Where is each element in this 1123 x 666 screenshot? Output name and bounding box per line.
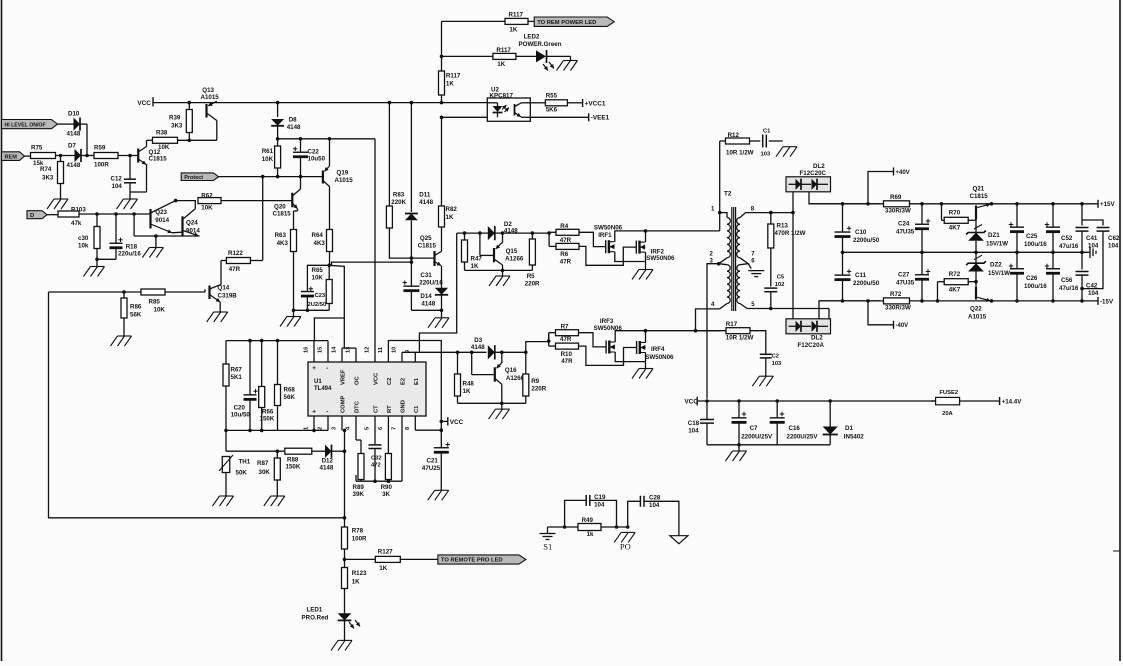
- svg-text:1: 1: [304, 427, 310, 430]
- svg-text:C22: C22: [308, 149, 320, 156]
- node C20 top bus: [248, 339, 252, 343]
- svg-text:2200u/50: 2200u/50: [853, 237, 880, 244]
- wire R17 to C2: [750, 331, 766, 354]
- zener DZ2 15V/1W: [966, 252, 1010, 289]
- svg-text:TH1: TH1: [239, 459, 251, 466]
- ground for LED2: [557, 61, 578, 71]
- resistor R59 100R: [94, 145, 118, 169]
- wire -40V stub: [866, 299, 893, 325]
- svg-text:C31: C31: [420, 272, 432, 279]
- svg-text:Q14: Q14: [218, 285, 230, 292]
- node C41 top: [1080, 202, 1084, 206]
- wire R10 to IRF4 gate: [579, 346, 637, 365]
- svg-text:10: 10: [392, 347, 398, 353]
- capacitor C42 104: [1076, 251, 1099, 301]
- svg-text:R64: R64: [312, 232, 324, 239]
- node Q15 base drop: [478, 231, 482, 235]
- svg-text:A1015: A1015: [968, 314, 987, 321]
- svg-text:-40V: -40V: [896, 323, 909, 329]
- svg-text:D12: D12: [322, 458, 334, 465]
- svg-text:R87: R87: [257, 460, 269, 467]
- wire R122 left to Q14: [221, 261, 226, 285]
- resistor R7 47R: [549, 323, 579, 343]
- wire TL494 bottom bus: [226, 429, 328, 433]
- svg-text:220R: 220R: [531, 385, 546, 392]
- svg-text:R48: R48: [463, 381, 475, 388]
- svg-text:C41: C41: [1086, 235, 1098, 242]
- wire pin1 pin2 stubs down: [314, 416, 328, 430]
- node R5 top: [531, 231, 535, 235]
- node R67 bottom: [224, 429, 228, 433]
- ground Q15: [489, 276, 510, 286]
- svg-text:+14.4V: +14.4V: [1002, 398, 1023, 405]
- svg-text:47u/16: 47u/16: [1059, 243, 1079, 250]
- svg-text:220u/16: 220u/16: [118, 251, 141, 258]
- svg-text:47U25: 47U25: [422, 465, 441, 472]
- wire pin5 stub: [740, 304, 829, 319]
- wire bottom bridge output to rail: [819, 301, 880, 319]
- svg-text:F12C20A: F12C20A: [798, 342, 825, 349]
- wire D3 cathode: [495, 351, 526, 353]
- wire long loop left: [49, 292, 345, 518]
- svg-text:D11: D11: [419, 192, 431, 199]
- wire R122 right up to Protect: [250, 177, 262, 261]
- banner D: [27, 211, 47, 219]
- svg-text:47U35: 47U35: [896, 229, 915, 236]
- ground center tap secondary: [748, 271, 764, 277]
- svg-text:C2: C2: [772, 354, 779, 360]
- node C56 bottom: [1051, 299, 1055, 303]
- svg-text:PRO.Red: PRO.Red: [302, 615, 329, 622]
- ground S1: [540, 527, 556, 552]
- svg-text:+: +: [312, 409, 316, 416]
- wire pin7 pin6 hook: [740, 258, 751, 269]
- svg-text:FUSE2: FUSE2: [939, 390, 958, 396]
- wire D10 down to REM net: [86, 124, 88, 155]
- svg-text:10K: 10K: [154, 307, 166, 314]
- svg-text:104: 104: [594, 502, 605, 509]
- svg-text:C20: C20: [234, 405, 246, 412]
- node R127 junction: [343, 558, 347, 562]
- capacitor C18 104: [688, 401, 714, 445]
- wire R85 line: [49, 289, 206, 294]
- svg-text:R38: R38: [156, 129, 168, 136]
- resistor R62 10K: [198, 192, 221, 211]
- node VEE row at column: [440, 116, 444, 120]
- svg-text:R88: R88: [287, 457, 299, 464]
- terminal VCC near C21: [441, 417, 463, 426]
- banner HI LEVEL ON/OF: [2, 120, 58, 129]
- svg-text:1K: 1K: [446, 214, 454, 221]
- wire IRF4 source to ground: [645, 353, 647, 369]
- wire IRF1 drain: [615, 231, 720, 242]
- capacitor C28 104: [628, 495, 679, 536]
- node D2 cathode: [501, 231, 505, 235]
- svg-text:C21: C21: [427, 458, 439, 465]
- thermistor TH1 50K: [219, 455, 251, 496]
- node rail R70: [940, 202, 944, 206]
- banner Protect: [181, 173, 218, 181]
- wire top rail +40: [809, 203, 1098, 205]
- terminal -15V: [1098, 297, 1114, 305]
- transistor Q24 9014: [183, 201, 201, 237]
- capacitor C19 104: [565, 494, 617, 527]
- resistor R69 330R/3W: [884, 194, 911, 215]
- svg-text:1K: 1K: [471, 263, 479, 270]
- svg-text:D1: D1: [845, 425, 853, 432]
- svg-text:1K: 1K: [379, 565, 387, 572]
- svg-text:TO REMOTE PRO LED: TO REMOTE PRO LED: [441, 558, 503, 564]
- svg-text:C1: C1: [763, 129, 771, 135]
- svg-text:DZ2: DZ2: [990, 262, 1002, 269]
- wire banner to D10: [58, 123, 74, 125]
- svg-text:DZ1: DZ1: [988, 232, 1000, 239]
- svg-text:C16: C16: [789, 425, 801, 432]
- svg-text:10K: 10K: [201, 204, 213, 211]
- svg-text:R103: R103: [71, 206, 86, 213]
- wire top bridge output to rail: [809, 192, 880, 204]
- resistor R67 5K1: [223, 341, 242, 431]
- wire pin4 stub: [694, 304, 727, 333]
- resistor R55: [545, 93, 567, 114]
- svg-text:+VCC1: +VCC1: [585, 100, 606, 107]
- svg-text:D8: D8: [289, 117, 297, 124]
- wire pin8 C1 stub: [415, 416, 443, 432]
- svg-text:47k: 47k: [71, 220, 82, 227]
- svg-text:330R/3W: 330R/3W: [885, 305, 911, 312]
- node Q16 base drop: [470, 351, 474, 355]
- svg-text:R90: R90: [381, 484, 393, 491]
- transistor Q12 C1815: [130, 140, 167, 192]
- ground R86: [111, 336, 132, 346]
- node R48 top: [456, 351, 460, 355]
- svg-text:-: -: [326, 365, 328, 372]
- capacitor C5 102: [764, 275, 785, 309]
- svg-text:R59: R59: [94, 145, 106, 152]
- svg-text:C5: C5: [777, 275, 785, 281]
- wire -VEE1 row: [442, 116, 589, 118]
- svg-text:C18: C18: [688, 420, 700, 427]
- terminal -40V: [894, 321, 909, 329]
- resistor R74 3K3: [40, 156, 64, 200]
- svg-text:c30: c30: [78, 235, 89, 242]
- diode D3 4148: [471, 337, 495, 359]
- ground chassis C28: [670, 536, 688, 544]
- wire R127 line: [345, 558, 438, 560]
- svg-text:220K: 220K: [391, 199, 406, 206]
- node C27 bottom: [920, 299, 924, 303]
- svg-text:GND: GND: [401, 400, 407, 413]
- svg-text:104: 104: [688, 428, 699, 435]
- svg-text:PO: PO: [620, 542, 631, 552]
- svg-text:LED2: LED2: [524, 34, 540, 41]
- svg-text:R6: R6: [560, 251, 568, 258]
- wire c30 R18 bottoms: [95, 258, 116, 267]
- transformer T2: [710, 191, 756, 312]
- svg-text:2: 2: [318, 427, 324, 430]
- wire VCC top rail: [153, 102, 487, 104]
- banner REM: [2, 152, 25, 161]
- ground R87: [264, 496, 285, 506]
- svg-text:C1815: C1815: [149, 156, 168, 163]
- svg-text:1K: 1K: [352, 579, 360, 586]
- svg-text:1K: 1K: [446, 81, 454, 88]
- capacitor C23 2U2/50: [301, 265, 329, 310]
- svg-text:C25: C25: [1026, 233, 1038, 240]
- ground C21: [428, 490, 449, 500]
- svg-text:3K: 3K: [382, 491, 390, 498]
- node R47 top: [463, 231, 467, 235]
- svg-text:R4: R4: [560, 223, 568, 230]
- mosfet IRF1 SW50N06: [594, 225, 623, 254]
- svg-text:VCC: VCC: [137, 100, 151, 107]
- terminal +VCC1: [583, 99, 606, 107]
- resistor R5 220R: [525, 233, 540, 287]
- terminal -VEE1: [589, 113, 610, 121]
- capacitor C10 2200u/50: [835, 204, 880, 253]
- node C52 top: [1051, 202, 1055, 206]
- resistor R49 1k: [578, 517, 601, 538]
- node c30 top: [95, 212, 99, 216]
- svg-text:R63: R63: [275, 232, 287, 239]
- svg-text:100u/16: 100u/16: [1024, 241, 1047, 248]
- transistor Q14 C319B: [210, 285, 238, 313]
- wire R12 column: [719, 141, 721, 213]
- svg-text:C11: C11: [855, 272, 867, 279]
- transistor Q25 C1815: [418, 235, 442, 288]
- resistor R123 1K: [342, 568, 368, 614]
- node C10 top: [841, 202, 845, 206]
- svg-text:103: 103: [761, 152, 771, 158]
- wire X net horizontal: [278, 138, 375, 140]
- wire IRF2 source to ground: [645, 252, 647, 269]
- node D11 anode line2: [410, 260, 414, 264]
- svg-text:A1015: A1015: [335, 177, 354, 184]
- resistor R6 47R: [549, 243, 579, 265]
- svg-text:D14: D14: [420, 293, 432, 300]
- resistor R12 10R 1/2W: [720, 132, 754, 157]
- ground mid rail right: [1088, 247, 1096, 259]
- wire LED2 row: [442, 56, 571, 60]
- svg-text:C27: C27: [898, 272, 910, 279]
- svg-text:4148: 4148: [471, 344, 485, 351]
- svg-text:10k: 10k: [78, 243, 89, 250]
- transistor Q22 A1015: [968, 287, 991, 321]
- fuse FUSE2 20A: [931, 390, 1000, 417]
- wire R103 to Q23: [79, 212, 150, 216]
- svg-text:2200U/25V: 2200U/25V: [741, 434, 773, 441]
- optocoupler U2 KPC817: [487, 87, 530, 122]
- svg-text:7: 7: [392, 427, 398, 430]
- svg-text:-VEE1: -VEE1: [591, 115, 610, 122]
- diode D2 4148: [488, 221, 518, 240]
- capacitor C7 2200U/25V: [732, 401, 774, 445]
- wire R64 node to D11 column: [329, 262, 411, 265]
- resistor R10 47R: [549, 343, 579, 365]
- svg-text:U1: U1: [314, 379, 322, 385]
- svg-text:R123: R123: [352, 570, 367, 577]
- node C12 tap: [128, 154, 132, 158]
- node Protect R61: [276, 175, 280, 179]
- ground LED1: [331, 640, 352, 650]
- svg-text:4148: 4148: [504, 227, 518, 234]
- resistor R103 47k: [58, 206, 86, 227]
- svg-text:4148: 4148: [287, 124, 301, 131]
- resistor R39 3K3: [169, 103, 192, 141]
- border frame right edge: [1113, 0, 1120, 661]
- capacitor C24 47U35: [896, 204, 930, 253]
- node R117 column LED2 branch: [440, 55, 444, 59]
- terminal +14.4V: [1000, 397, 1023, 405]
- wire TH1 R88 line: [226, 449, 345, 453]
- resistor R17 10R 1/2W: [696, 321, 754, 342]
- svg-text:C10: C10: [855, 229, 867, 236]
- svg-text:R89: R89: [353, 484, 365, 491]
- wire caps bottom line: [707, 443, 830, 451]
- svg-text:10u/50: 10u/50: [231, 412, 251, 419]
- svg-text:C32: C32: [371, 456, 382, 462]
- svg-text:100u/16: 100u/16: [1024, 283, 1047, 290]
- ground IRF1 IRF2: [632, 270, 653, 280]
- resistor R90 3K: [381, 416, 393, 498]
- capacitor C41 104: [1076, 204, 1099, 253]
- wire R4 to IRF1 gate: [579, 232, 606, 246]
- terminal VCC main: [137, 97, 153, 107]
- svg-text:150K: 150K: [260, 416, 275, 423]
- ground c30 R18: [84, 267, 105, 277]
- svg-text:RT: RT: [387, 405, 393, 413]
- svg-text:+40V: +40V: [896, 170, 910, 176]
- wire Q15 bottom net: [465, 269, 533, 276]
- svg-text:C24: C24: [898, 221, 910, 228]
- node VCC rail R117col: [440, 101, 444, 105]
- node C11 bottom: [841, 299, 845, 303]
- resistor R64 4K3: [312, 230, 333, 266]
- svg-text:R68: R68: [284, 387, 296, 394]
- capacitor C31 220U/16: [403, 262, 444, 310]
- node C24 mid: [920, 251, 924, 255]
- svg-text:15V/1W: 15V/1W: [986, 241, 1008, 248]
- svg-text:4K3: 4K3: [314, 240, 326, 247]
- wire R9 up to R7 junction: [526, 333, 549, 353]
- transistor Q19 A1015: [323, 139, 353, 229]
- svg-text:4148: 4148: [419, 199, 433, 206]
- wire R62 left to Q23 Q24 collectors: [174, 199, 196, 203]
- wire VCC rail: [697, 399, 935, 403]
- svg-text:R122: R122: [228, 250, 243, 257]
- ground Q14: [207, 312, 228, 322]
- ground IRF3 IRF4: [632, 369, 653, 379]
- svg-text:104: 104: [649, 502, 660, 509]
- svg-text:16: 16: [304, 347, 310, 353]
- capacitor C26 100u/16: [1009, 252, 1047, 301]
- wire pin1 stub: [718, 211, 727, 231]
- svg-text:TO REM POWER LED: TO REM POWER LED: [537, 20, 596, 26]
- node VCC rail R83: [388, 101, 392, 105]
- svg-text:D: D: [30, 213, 34, 219]
- svg-text:47u/16: 47u/16: [1059, 285, 1079, 292]
- svg-text:COMP: COMP: [341, 395, 347, 413]
- wire drive branch corner: [456, 232, 458, 234]
- node DZ mid: [974, 251, 978, 255]
- node R68 top bus: [276, 339, 280, 343]
- wire pin11 to VCC node: [388, 341, 441, 418]
- svg-text:R13: R13: [777, 223, 789, 230]
- wire top bridge left leg: [792, 192, 794, 319]
- svg-text:T2: T2: [724, 191, 732, 198]
- resistor R78 100R: [342, 518, 368, 567]
- resistor R117 (vertical): [439, 71, 461, 95]
- svg-text:R66: R66: [262, 409, 274, 416]
- node R64 R65 junction: [327, 264, 331, 268]
- diode D8 4148: [271, 103, 301, 139]
- svg-text:47R: 47R: [229, 266, 241, 273]
- node C22 top: [299, 137, 303, 141]
- svg-text:47R: 47R: [561, 358, 573, 365]
- ground Q23 Q24: [142, 248, 163, 258]
- diode D7 4148: [67, 143, 82, 170]
- svg-text:E1: E1: [414, 377, 420, 385]
- svg-text:11: 11: [378, 347, 384, 353]
- resistor R38 10K: [153, 129, 178, 151]
- svg-text:R55: R55: [546, 93, 558, 100]
- banner TO REM POWER LED: [534, 17, 614, 26]
- svg-text:5: 5: [365, 427, 371, 430]
- wire COMP column down: [342, 416, 346, 518]
- svg-text:9014: 9014: [186, 228, 200, 235]
- wire R7 to IRF3 gate: [579, 333, 607, 347]
- wire R67 to TH1 line: [225, 430, 227, 451]
- svg-text:472: 472: [371, 463, 381, 469]
- border frame left edge: [1, 0, 3, 661]
- svg-text:R61: R61: [262, 148, 274, 155]
- ground TH1: [213, 496, 234, 506]
- wire Q24 emitter line: [134, 216, 199, 248]
- svg-text:1k: 1k: [587, 531, 594, 538]
- svg-text:R75: R75: [31, 145, 43, 152]
- rectifier DL2 F12C20A (bottom): [786, 319, 831, 349]
- wire pin12 VCC column: [374, 139, 376, 362]
- wire drive branch down to D3 bank: [402, 233, 458, 352]
- resistor R117 (top): [505, 12, 528, 34]
- wire Q16 base: [458, 352, 494, 374]
- svg-text:C28: C28: [649, 495, 661, 502]
- svg-text:R72: R72: [890, 291, 902, 298]
- svg-text:IRF1: IRF1: [598, 232, 612, 239]
- resistor R72 330R/3W (bottom): [884, 291, 911, 312]
- svg-text:Q15: Q15: [506, 248, 518, 255]
- svg-text:Protect: Protect: [184, 175, 203, 181]
- svg-text:C7: C7: [750, 425, 758, 432]
- resistor c30 10k: [78, 214, 100, 259]
- node D3 cathode: [500, 351, 504, 355]
- diode D12 4148: [320, 445, 334, 472]
- resistor R117 (LED2 row): [493, 47, 516, 68]
- svg-text:R49: R49: [582, 517, 594, 524]
- ground C1: [776, 147, 797, 157]
- node R66 top bus: [260, 339, 264, 343]
- svg-text:47R: 47R: [560, 259, 572, 266]
- svg-text:C1815: C1815: [418, 243, 437, 250]
- svg-text:47U35: 47U35: [896, 280, 915, 287]
- svg-text:R5: R5: [527, 273, 535, 280]
- svg-text:2U2/50: 2U2/50: [308, 302, 327, 308]
- wire pins 9 10 stubs: [402, 352, 415, 362]
- wire RC bottom line: [356, 416, 402, 483]
- svg-text:R117: R117: [446, 73, 461, 80]
- resistor R66 150K: [259, 341, 275, 431]
- svg-text:220U/16: 220U/16: [419, 280, 443, 287]
